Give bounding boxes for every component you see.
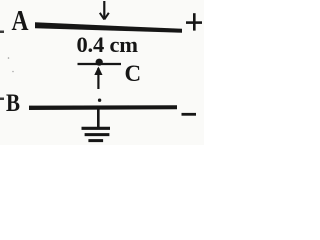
svg-text:B: B (6, 88, 20, 117)
svg-text:0.4 cm: 0.4 cm (77, 32, 139, 57)
svg-text:A: A (12, 6, 30, 37)
svg-text:C: C (125, 61, 142, 86)
